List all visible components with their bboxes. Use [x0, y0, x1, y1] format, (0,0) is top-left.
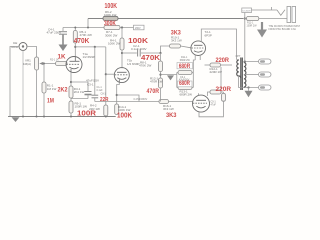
ground arrow below C4 [59, 45, 68, 52]
resistor 220R (lower screen) [208, 92, 211, 96]
ground symbol (speaker return) [248, 88, 250, 91]
svg-text:0.1uF 400V: 0.1uF 400V [131, 47, 147, 51]
svg-text:C3-1: C3-1 [87, 83, 94, 87]
resistor R1 1M (grid leak, vertical) [43, 63, 45, 65]
svg-text:1M 1W: 1M 1W [47, 87, 57, 91]
junction on rail B left [87, 27, 89, 29]
power connector pins [287, 7, 291, 23]
boxed value label 680R (red) [178, 81, 193, 87]
output transformer core [240, 58, 242, 91]
wire rail A to rail B drop [87, 19, 89, 28]
wire rise to upper grid [161, 46, 170, 53]
wire coupling line [122, 52, 137, 54]
speaker jack 2 [259, 72, 272, 77]
node rail A to B+ [244, 17, 246, 19]
node B+ feed [244, 60, 246, 62]
node cathode T1a [70, 81, 72, 83]
power label box DC300V [242, 8, 252, 13]
node voltage label box 260V [134, 25, 145, 30]
svg-text:100R 2W: 100R 2W [247, 24, 258, 27]
svg-text:3K3: 3K3 [171, 30, 182, 36]
speaker jack 3 [259, 85, 272, 90]
svg-text:1M: 1M [47, 98, 54, 105]
wire R5 bottom to plate node [74, 43, 76, 57]
wire cathode to lower grid feed [117, 95, 139, 102]
capacitor C5 47uF (lower cathode bypass) [222, 92, 224, 93]
svg-text:470K: 470K [74, 38, 90, 45]
node cathode T1b [116, 94, 118, 96]
svg-text:3K3: 3K3 [166, 113, 177, 119]
svg-text:680R: 680R [179, 81, 191, 87]
wire C3 bottom join [71, 98, 88, 100]
svg-text:2K2: 2K2 [58, 87, 68, 94]
wire pot bottom to ground [36, 70, 38, 117]
annotation arrow (power supply) [261, 22, 263, 30]
wire rail A (B+ top rail) [88, 18, 243, 20]
node coupling junction [159, 52, 161, 54]
wire plate loop [201, 29, 236, 60]
wire cathode node to C3 [71, 82, 88, 91]
svg-text:470K 2W: 470K 2W [80, 33, 93, 37]
svg-text:OPT: OPT [236, 55, 241, 58]
wire power top line [252, 9, 278, 11]
resistor R11 100R (B+ series) [243, 18, 246, 20]
svg-text:680R 2W: 680R 2W [180, 59, 191, 62]
speaker jack 1 [259, 59, 272, 64]
ground bus [8, 116, 116, 118]
svg-text:1M(A): 1M(A) [23, 62, 31, 66]
wire screen rail down [220, 67, 222, 90]
pentode T2 upper 6P3P [191, 41, 206, 56]
wire T1a cathode down [70, 72, 72, 86]
wire B+ drop [244, 13, 246, 62]
pentode T2 lower 6P3P [193, 95, 210, 112]
node plate T1a [74, 46, 76, 48]
svg-text:470K 2W: 470K 2W [139, 64, 152, 68]
svg-text:6P3P: 6P3P [205, 34, 212, 38]
svg-text:0.47uF/630V: 0.47uF/630V [134, 98, 148, 101]
svg-text:220R 1W: 220R 1W [210, 70, 223, 74]
wire grid rail T1b [105, 47, 107, 105]
resistor 22R (vertical, cathode T1b) [115, 104, 119, 115]
wire jack pin to pot [27, 47, 37, 58]
wire plate node to grid rail of T1b [75, 46, 106, 48]
potentiometer VR1 1M(A) [35, 57, 39, 70]
wire rail B [63, 27, 134, 29]
wire C1 branch down [94, 47, 96, 95]
resistor R6 100K 1W (on rail A) [103, 16, 118, 20]
wire cathode ladder left rail [176, 73, 178, 88]
svg-text:680R: 680R [179, 64, 191, 70]
svg-text:260V: 260V [135, 27, 141, 30]
resistor R8 470K (grid leak, vertical) [160, 53, 162, 61]
ground arrow (mid) [167, 75, 174, 80]
svg-text:220R: 220R [216, 58, 230, 64]
wire T2 lower plate stub [197, 93, 199, 95]
resistor R7 300K (on rail B) [104, 25, 120, 29]
resistor R2 1K (grid stopper) [56, 62, 68, 66]
wire jack body to ground [22, 51, 24, 117]
svg-text:1/2 6N9P: 1/2 6N9P [83, 55, 96, 59]
node C1 tap [94, 46, 96, 48]
resistor 680R (lower cathode) [177, 87, 194, 89]
resistor R5 470K 2W (plate load T1a, vertical) [74, 28, 76, 31]
resistor 680R (upper cathode) [177, 72, 194, 74]
svg-text:1K: 1K [58, 53, 66, 60]
wire lower cathode loop [199, 101, 223, 117]
resistor R4 100K (plate load T1b, vertical) [121, 28, 123, 39]
svg-text:470R 1W: 470R 1W [150, 80, 163, 84]
triode T1a 1/2 6N9P [66, 57, 82, 73]
node 0 tap ground [247, 86, 249, 88]
wire grid feed line (lower) [95, 101, 159, 103]
wire cathode ladder right rail [193, 60, 195, 88]
node ground line [159, 74, 161, 76]
capacitor C1 0.1uF (to lower output grid) [92, 94, 99, 96]
svg-text:470R: 470R [147, 88, 160, 95]
svg-text:C8-1: C8-1 [101, 93, 107, 96]
svg-text:0.1uF: 0.1uF [97, 89, 104, 92]
ground symbol (main) [12, 117, 20, 122]
resistor R9 100R (vertical, below cathode) [70, 98, 72, 101]
svg-text:2K2 1W: 2K2 1W [74, 90, 85, 94]
svg-text:470K: 470K [141, 55, 160, 62]
svg-text:680R 2W: 680R 2W [180, 93, 193, 97]
transformer primary winding [237, 60, 241, 78]
wire T1b cathode [117, 82, 120, 104]
svg-text:300K 2W: 300K 2W [105, 33, 118, 37]
pot wiper arrow [41, 63, 56, 65]
resistor 3K3 (lower grid stopper) [159, 100, 169, 104]
svg-text:100K: 100K [105, 3, 118, 10]
svg-text:47uF 250V: 47uF 250V [47, 31, 62, 35]
wire secondary mid tap [244, 74, 259, 76]
wire primary bottom to 0 tap [239, 76, 259, 88]
svg-text:100R 1W: 100R 1W [75, 105, 88, 109]
bus junction dots [22, 116, 24, 118]
resistor 220R (upper screen) [205, 64, 211, 66]
resistor R3 2K2 (cathode, vertical) [69, 86, 73, 98]
wire grid stub [106, 73, 115, 75]
triode T1b 1/2 6N9P [114, 68, 129, 83]
svg-text:300K: 300K [104, 21, 116, 28]
RCA input jack [19, 43, 27, 51]
svg-text:100K: 100K [117, 113, 132, 120]
transformer secondary winding [244, 63, 246, 88]
node grid T1b [105, 73, 107, 75]
svg-text:3K3 1W: 3K3 1W [171, 39, 182, 43]
capacitor C4 47uF/250V (decoupling) [62, 28, 64, 32]
svg-text:DC300V: DC300V [243, 10, 252, 12]
resistor 470R (feedback, vertical) [159, 78, 163, 88]
wire T2 upper pins [194, 55, 196, 60]
wire cathode ground line [161, 74, 177, 76]
resistor R10 3K3 (upper grid stopper) [170, 44, 181, 48]
boxed value label 680R (red) [177, 63, 193, 69]
wire jack shell to ground [10, 47, 19, 117]
svg-text:100K 2W: 100K 2W [108, 42, 121, 46]
capacitor C3 47uF/25V (cathode bypass) [85, 91, 92, 93]
wire secondary top tap [244, 62, 259, 63]
svg-text:47uF: 47uF [211, 104, 217, 107]
svg-text:100K 1W: 100K 1W [104, 13, 117, 17]
svg-text:3K3 1W: 3K3 1W [163, 107, 174, 111]
junction node R4 top [121, 26, 123, 28]
capacitor C2 0.1uF/400V (coupling) [137, 50, 139, 57]
node plate T1b / coupling tap [121, 52, 123, 54]
switch blade [277, 10, 285, 16]
svg-text:1/2 6N9P: 1/2 6N9P [127, 62, 140, 66]
svg-text:FROM PSU BOARD 0.3A: FROM PSU BOARD 0.3A [269, 28, 297, 31]
svg-text:22R 1W: 22R 1W [89, 107, 100, 111]
resistor 22R (vertical, grid rail bottom) [104, 105, 108, 116]
